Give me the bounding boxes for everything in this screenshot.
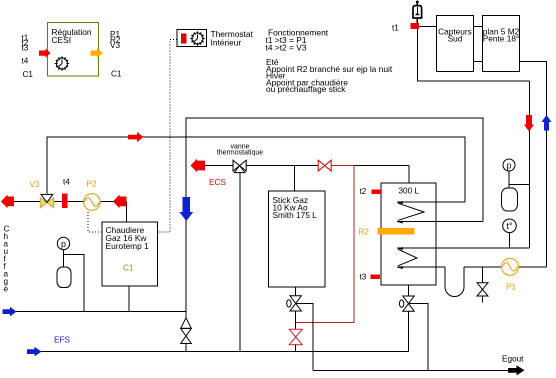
valve drain solar — [477, 283, 488, 296]
wire t1 drop — [418, 29, 530, 81]
svg-text:p: p — [61, 239, 66, 249]
coil bottom arrowheads — [398, 247, 403, 269]
svg-text:CESI: CESI — [52, 35, 72, 45]
wire EFS line — [41, 351, 409, 353]
collector box plan 5 M2 Pente 18 — [483, 16, 520, 72]
sensor t2 red bar — [372, 189, 382, 194]
wire boiler flow y137 — [47, 137, 465, 202]
wire stick drain top — [295, 287, 297, 296]
arrow blue down on return — [179, 197, 193, 221]
svg-text:t4 >t2 = V3: t4 >t2 = V3 — [266, 42, 307, 52]
svg-text:C1: C1 — [123, 264, 134, 273]
svg-text:V3: V3 — [30, 180, 40, 189]
water heater box Stick Gaz — [269, 191, 326, 287]
expansion vessel solar — [502, 188, 518, 211]
wire tank valve elbow to egout — [409, 304, 429, 371]
tank 300L — [381, 183, 436, 285]
arrow red on boiler flow — [128, 132, 144, 142]
svg-text:Intérieur: Intérieur — [211, 38, 242, 48]
clock icon in thermostat — [190, 31, 204, 45]
sensor t1 air-vent symbol — [413, 1, 422, 24]
pump P1 — [502, 258, 519, 275]
svg-text:t3: t3 — [360, 273, 367, 282]
svg-text:ECS: ECS — [209, 178, 226, 187]
svg-text:Pente 18°: Pente 18° — [483, 34, 520, 44]
coil top exchanger — [397, 202, 483, 222]
valve red drain under stick — [289, 329, 302, 344]
wire chauffage depart y201.5 — [2, 201, 127, 203]
arrow black egout — [508, 365, 525, 375]
arrow red into chauffage line — [113, 195, 127, 209]
sensor t1 red pocket — [411, 23, 420, 29]
svg-text:C1: C1 — [23, 70, 34, 79]
note text Fonctionnement — [266, 28, 393, 95]
wire ECS line — [203, 165, 409, 167]
red wire ECS to stick preheat — [296, 166, 355, 323]
svg-text:t4: t4 — [63, 178, 70, 187]
svg-text:P1: P1 — [506, 283, 516, 292]
arrow red chauffage out left — [1, 195, 14, 209]
svg-text:V3: V3 — [110, 41, 120, 50]
wire stub to EFS — [295, 345, 297, 352]
gauge p boiler — [57, 237, 69, 249]
wire between collector boxes bottom — [474, 61, 483, 63]
wire tank drain — [408, 285, 410, 296]
wire p tee solar — [509, 184, 530, 186]
wire solar return through trap — [464, 266, 547, 268]
wire stick riser — [294, 166, 296, 192]
svg-text:e: e — [4, 285, 9, 294]
valve red on ECS — [318, 160, 331, 171]
heat trap U siphon — [445, 267, 464, 297]
arrow orange out of regulator — [91, 49, 104, 58]
expansion vessel boiler — [57, 267, 71, 288]
valve motorized under stick — [287, 296, 302, 311]
dotted control wire thermostat to boiler — [158, 40, 178, 233]
wire egout line — [313, 370, 509, 372]
safety valve group on x186 — [181, 312, 192, 352]
dotted control wire boiler to P2 — [88, 211, 102, 232]
heater R2 orange bar — [378, 228, 415, 235]
svg-text:R2: R2 — [359, 228, 370, 237]
label Chauffage vertical — [4, 225, 10, 294]
wire gauge tee to return — [64, 255, 85, 312]
svg-text:t3: t3 — [22, 44, 29, 53]
valve motorized under tank — [399, 296, 414, 311]
svg-text:t°: t° — [507, 221, 513, 231]
clock icon in regulator — [55, 56, 69, 70]
wire solar supply down — [529, 81, 531, 248]
sensor t4 red bar — [62, 194, 67, 209]
wire gauge stem — [63, 250, 65, 267]
svg-text:Smith 175 L: Smith 175 L — [273, 210, 318, 220]
wire stick drain bottom — [295, 311, 297, 329]
svg-text:C1: C1 — [111, 70, 122, 79]
svg-text:EFS: EFS — [54, 336, 70, 345]
boiler box Chaudiere C1 — [102, 222, 158, 286]
wire boiler bottom drop — [128, 286, 130, 312]
svg-text:thermostatique: thermostatique — [217, 150, 263, 157]
arrow red into regulator — [39, 49, 51, 58]
thermostat box — [177, 30, 207, 47]
valve vanne thermostatique three-way — [233, 160, 246, 172]
svg-text:Sud: Sud — [448, 34, 463, 44]
svg-text:Egout: Egout — [502, 355, 524, 364]
wire drain stub solar — [482, 267, 484, 283]
wire tank cold feed down to EFS — [408, 311, 410, 351]
wire cold feed riser to valve — [239, 173, 241, 352]
svg-text:t1: t1 — [392, 24, 399, 33]
wire chauffage retour y311.5 — [16, 311, 186, 313]
arrow red ECS left — [191, 159, 206, 172]
arrow blue solar return up — [542, 115, 552, 131]
svg-text:t4: t4 — [22, 57, 29, 66]
arrow blue EFS — [27, 347, 42, 357]
coil bottom exchanger — [397, 248, 530, 267]
sensor t3 red bar — [371, 274, 381, 279]
wire boiler return y118 — [186, 118, 483, 312]
wire ECS drop to tank top — [408, 166, 410, 184]
wire stick valve elbow to egout — [297, 303, 314, 370]
svg-text:P2: P2 — [87, 180, 97, 189]
svg-text:p: p — [507, 160, 512, 170]
gauge t solar — [503, 219, 517, 233]
collector box Capteurs Sud — [437, 16, 474, 72]
coil top arrowheads — [398, 201, 403, 224]
svg-text:ou préchauffage stick: ou préchauffage stick — [266, 84, 346, 94]
arrow red solar supply down — [524, 115, 534, 132]
svg-text:Eurotemp 1: Eurotemp 1 — [106, 241, 150, 251]
svg-text:300 L: 300 L — [399, 187, 420, 196]
pump P2 — [84, 194, 101, 211]
wire p stem solar — [508, 171, 510, 190]
arrow blue retour right — [3, 307, 17, 317]
wire t1 to collector — [419, 26, 437, 28]
svg-text:t2: t2 — [360, 187, 367, 196]
wire t stem — [509, 233, 511, 248]
wire drain stub end — [482, 296, 484, 303]
gauge p solar — [503, 159, 515, 171]
wire between collector boxes top — [474, 26, 483, 28]
regulator box U1 Regulation CESI — [48, 23, 99, 77]
valve V3 three-way — [40, 194, 54, 207]
wire drop to boiler top — [126, 202, 128, 223]
wire solar return up — [520, 62, 547, 268]
